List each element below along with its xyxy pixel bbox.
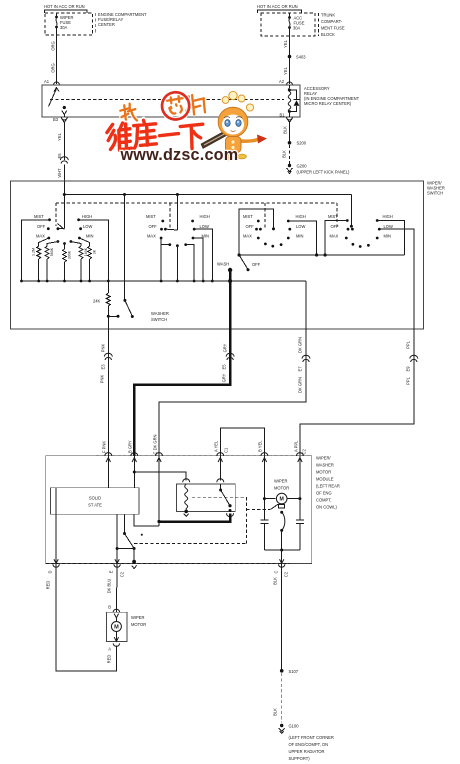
svg-text:30A: 30A [293, 26, 301, 31]
node HIGH 3 [287, 214, 317, 255]
node OFF 4 [331, 224, 354, 231]
washer switch arm [123, 195, 168, 323]
svg-text:OF ENG: OF ENG [316, 491, 332, 496]
svg-text:HIGH: HIGH [200, 214, 210, 219]
svg-text:C2: C2 [284, 571, 289, 577]
label TRUNK COMPARTMENT FUSE BLOCK [319, 13, 345, 38]
svg-text:MENT FUSE: MENT FUSE [321, 26, 345, 31]
label ACCESSORY RELAY [304, 86, 360, 106]
fuse WIPER FUSE 30A [55, 13, 73, 35]
wiper motor (in module) [274, 479, 289, 509]
wire YEL from acc fuse [283, 36, 290, 84]
wire bank2 center drop [176, 244, 179, 281]
svg-text:LOW: LOW [83, 224, 92, 229]
resistor 160K [70, 240, 88, 281]
svg-text:B1: B1 [280, 113, 286, 118]
node feed rail [63, 193, 352, 196]
wire ORG from wiper fuse to relay A1 [51, 35, 57, 84]
wire bank3 feed bracket [239, 209, 275, 255]
svg-text:YEL: YEL [283, 66, 288, 74]
wire D RED exit [48, 488, 60, 574]
wire B YEL to motor left brush [263, 456, 276, 520]
washer relay box (in module) [177, 484, 236, 512]
svg-text:ON COWL): ON COWL) [316, 505, 338, 510]
svg-text:24K: 24K [93, 299, 101, 304]
resistor 1.2M [32, 238, 49, 281]
svg-text:HIGH: HIGH [82, 214, 92, 219]
wire DK GRN switch to module pin C [159, 329, 310, 456]
svg-text:MIST: MIST [243, 214, 253, 219]
wire washer relay to motor feed (heavy) [159, 514, 230, 522]
svg-text:WASHER: WASHER [316, 463, 334, 468]
svg-text:F PNK: F PNK [102, 441, 107, 453]
svg-text:B YEL: B YEL [258, 440, 263, 452]
svg-text:3K: 3K [92, 249, 96, 254]
washer switch contacts [107, 315, 120, 318]
label ENGINE COMPARTMENT FUSE/RELAY CENTER [96, 12, 147, 33]
svg-text:HOT IN ACC OR RUN: HOT IN ACC OR RUN [44, 4, 85, 9]
node LOW 4 / wire PPL exit [378, 224, 414, 329]
svg-text:MIN: MIN [296, 234, 304, 239]
washer relay coil [183, 479, 190, 517]
wiper motor (lower) [107, 605, 147, 664]
wire PPL switch to module pin A [300, 329, 418, 456]
node common rail mid [238, 253, 405, 256]
svg-text:OFF: OFF [252, 262, 261, 267]
wire WHT entry into switch common [63, 181, 65, 229]
node HIGH 1 [77, 214, 108, 281]
svg-text:DK BLU: DK BLU [107, 579, 112, 594]
node MIN 1 [78, 234, 94, 240]
svg-text:OFF: OFF [149, 224, 158, 229]
svg-text:A1: A1 [44, 79, 50, 84]
watermark mascot [201, 91, 267, 160]
svg-text:MICRO RELAY CENTER): MICRO RELAY CENTER) [304, 101, 352, 106]
accessory relay box [42, 85, 300, 117]
ground G200 [287, 164, 350, 175]
node MIST 1 [22, 214, 51, 281]
svg-text:PPL: PPL [406, 376, 411, 384]
svg-text:C1: C1 [224, 447, 229, 453]
relay coil (A2 side) [288, 85, 291, 117]
pin B3 [53, 117, 67, 123]
rotary arc contacts 3 [264, 243, 283, 248]
svg-text:www.dzsc.com: www.dzsc.com [120, 146, 239, 164]
svg-text:LOW: LOW [296, 224, 305, 229]
wire A YEL into washer relay [219, 456, 221, 481]
svg-text:S403: S403 [296, 55, 306, 60]
wire bank4 feed from rail [350, 195, 353, 228]
svg-text:DK GRN: DK GRN [298, 337, 303, 353]
node MIN 4 [376, 234, 391, 240]
svg-text:(LEFT FRONT CORNER: (LEFT FRONT CORNER [289, 735, 334, 740]
wire BLK S107 to G100 (dashed) [273, 673, 282, 723]
wire PNK switch to module pin F [100, 329, 113, 456]
node common 2 [176, 195, 178, 231]
wire A PPL to motor right brush [288, 456, 302, 520]
relay clamp diode [288, 89, 299, 113]
ground G100 [279, 724, 334, 762]
svg-text:MAX: MAX [36, 234, 45, 239]
svg-text:C2: C2 [120, 571, 125, 577]
resistor 300K [63, 242, 72, 281]
module case ground [132, 560, 137, 569]
svg-text:WIPER: WIPER [131, 615, 144, 620]
resistor 560K [45, 240, 59, 281]
node LOW 1 [79, 224, 92, 230]
svg-text:PNK: PNK [100, 375, 105, 384]
node MAX 1 [36, 234, 50, 240]
watermark 找芯片 magnifier [119, 89, 206, 125]
svg-text:WASH: WASH [217, 262, 229, 267]
svg-text:A PPL: A PPL [294, 440, 299, 452]
svg-text:YEL: YEL [57, 132, 62, 140]
svg-text:WIPER: WIPER [274, 479, 287, 484]
washer arm (bank3) [217, 255, 261, 271]
svg-text:E7: E7 [298, 366, 303, 372]
svg-text:MOTOR: MOTOR [274, 486, 289, 491]
node WASH output (heavy) [228, 268, 232, 329]
svg-text:SUPPORT): SUPPORT) [289, 756, 311, 761]
wire BLK B1 to S200 [283, 122, 290, 141]
node LOW 2 [193, 224, 213, 281]
node MAX 2 [147, 234, 163, 282]
node LOW 3 [288, 224, 305, 231]
pin B1 [280, 113, 293, 123]
mechanical linkage dashed rail [56, 203, 337, 228]
svg-text:S107: S107 [289, 669, 299, 674]
svg-text:HOT IN ACC OR RUN: HOT IN ACC OR RUN [257, 4, 298, 9]
node OFF 3 [246, 224, 262, 231]
svg-text:HIGH: HIGH [296, 214, 306, 219]
solid state box [50, 488, 139, 515]
wire F PNK into solid state [107, 456, 109, 488]
svg-text:MIN: MIN [86, 234, 94, 239]
pin A1 [44, 79, 60, 85]
svg-text:G100: G100 [289, 724, 300, 729]
svg-text:TRUNK: TRUNK [321, 13, 335, 18]
node MIST 2 [146, 214, 164, 222]
wire bank2 left bracket [161, 243, 171, 246]
park cam pointer [246, 509, 270, 511]
svg-text:BLK: BLK [283, 126, 288, 134]
svg-text:MIST: MIST [328, 214, 338, 219]
resistor 3K [79, 238, 96, 281]
svg-text:DK GRN: DK GRN [298, 377, 303, 393]
svg-text:B GRY: B GRY [128, 440, 133, 453]
wire DK GRN exit from rail [305, 281, 307, 329]
wire B GRY into solid state, branch to washer relay coil [133, 456, 186, 488]
svg-text:RED: RED [107, 655, 112, 664]
svg-text:OFF: OFF [331, 224, 340, 229]
svg-text:HIGH: HIGH [383, 214, 393, 219]
svg-text:SWITCH: SWITCH [151, 317, 167, 322]
node HIGH 2 [191, 214, 210, 222]
node MAX 4 [330, 234, 348, 240]
node HOT IN ACC OR RUN (left) [44, 4, 87, 13]
wire BLK S200 to G200 (dashed) [282, 145, 290, 164]
node MIN 3 [287, 234, 304, 240]
connector C1/C2 dashed line along module top [96, 455, 312, 457]
node MIN 2 [192, 234, 209, 282]
wire YEL/WHT B3 to switch box [57, 123, 68, 182]
svg-text:E3: E3 [101, 364, 106, 370]
node MIST 4 [325, 214, 349, 255]
wiper/washer switch box [10, 181, 423, 329]
svg-text:RED: RED [46, 581, 51, 590]
svg-text:E: E [109, 570, 114, 573]
svg-text:PPL: PPL [406, 340, 411, 348]
pin A2 [279, 79, 293, 85]
svg-text:COMPART-: COMPART- [321, 19, 343, 24]
svg-text:A: A [108, 647, 111, 652]
svg-text:E9: E9 [406, 366, 411, 372]
capacitor left [260, 520, 268, 550]
wire RED module D to wiper motor A [46, 564, 117, 671]
splice S200 [288, 141, 307, 146]
svg-text:OF ENG/COMPT, ON: OF ENG/COMPT, ON [289, 742, 329, 747]
label wiper/washer motor module [316, 456, 340, 510]
svg-text:PNK: PNK [101, 344, 106, 353]
svg-text:GRY: GRY [223, 343, 228, 352]
svg-text:1.2M: 1.2M [32, 248, 36, 256]
svg-text:MOTOR: MOTOR [316, 470, 331, 475]
wire GRY (washer, heavy) switch to module pin B [134, 329, 234, 456]
node HIGH 4 [376, 214, 405, 255]
svg-text:(UPPER LEFT KICK PANEL): (UPPER LEFT KICK PANEL) [297, 170, 350, 175]
wire PNK exits switch box [107, 316, 109, 329]
connector dashed line along module bottom [46, 563, 290, 565]
svg-text:MOTOR: MOTOR [131, 622, 146, 627]
svg-text:LOW: LOW [384, 224, 393, 229]
svg-text:WASHER: WASHER [151, 311, 169, 316]
svg-text:YEL: YEL [283, 39, 288, 47]
svg-text:MIST: MIST [146, 214, 156, 219]
rotary arc contacts 4 [352, 243, 370, 248]
splice S403 [288, 55, 307, 60]
svg-text:UPPER RADIATOR: UPPER RADIATOR [289, 749, 325, 754]
svg-text:SWITCH: SWITCH [427, 191, 443, 196]
watermark 维库一下 [107, 118, 204, 151]
trunk compartment fuse block box (dashed) [261, 13, 315, 36]
svg-text:CENTER: CENTER [98, 22, 115, 27]
svg-text:GRY: GRY [222, 373, 227, 382]
svg-text:BLK: BLK [282, 150, 287, 158]
node resistor bottom rail [20, 280, 306, 283]
park linkage dashed [134, 497, 246, 543]
svg-text:BLOCK: BLOCK [321, 32, 335, 37]
svg-text:WIPER/: WIPER/ [316, 456, 331, 461]
wire DK BLU module E to motor B [107, 564, 118, 613]
wire C DK GRN down to relay junction [157, 456, 160, 526]
fuse ACC FUSE 30A [288, 13, 305, 36]
svg-text:A2: A2 [279, 79, 285, 84]
svg-text:BLK: BLK [273, 708, 278, 716]
svg-text:M: M [114, 625, 119, 631]
svg-text:MAX: MAX [147, 234, 156, 239]
park switch at motor [280, 511, 285, 550]
node OFF 2 [149, 224, 178, 231]
svg-text:MODULE: MODULE [316, 477, 334, 482]
relay internal dashed link [50, 99, 284, 101]
svg-text:560K: 560K [50, 247, 54, 256]
svg-text:LOW: LOW [200, 224, 209, 229]
svg-text:COMPT,: COMPT, [316, 498, 331, 503]
svg-text:300K: 300K [67, 250, 71, 259]
park switch (module left) [116, 514, 143, 563]
splice S107 [280, 669, 299, 674]
svg-text:C: C [274, 570, 279, 573]
wiper/washer motor module box [46, 456, 312, 564]
svg-text:SOLID: SOLID [89, 496, 101, 501]
svg-text:MAX: MAX [330, 234, 339, 239]
node HOT IN ACC OR RUN (right) [257, 4, 302, 13]
wire bank2 right bracket [184, 243, 194, 281]
wire BLK module C to S107 [273, 564, 282, 670]
svg-text:ORG: ORG [51, 63, 56, 72]
wire C exit [274, 559, 289, 577]
svg-text:MAX: MAX [243, 234, 252, 239]
svg-text:30A: 30A [60, 25, 68, 30]
svg-text:M: M [280, 497, 284, 503]
svg-text:A YEL: A YEL [214, 440, 219, 452]
capacitor right [296, 520, 304, 550]
relay switch contact (A1 side) [49, 88, 67, 118]
engine compartment fuse/relay center box (dashed) [45, 13, 93, 35]
resistor 24K (washer delay) [93, 281, 110, 316]
svg-text:S200: S200 [297, 141, 307, 146]
svg-text:OFF: OFF [246, 224, 255, 229]
wire YEL jumper pin A to pin B [220, 428, 264, 456]
node motor ground rail [264, 549, 300, 564]
svg-text:BLK: BLK [273, 577, 278, 585]
svg-text:WHT: WHT [57, 168, 62, 178]
node OFF 1 [37, 224, 64, 231]
svg-text:(LEFT REAR: (LEFT REAR [316, 484, 340, 489]
svg-text:MIN: MIN [384, 234, 392, 239]
node MAX 3 [243, 234, 260, 240]
svg-text:E5: E5 [222, 364, 227, 370]
svg-text:C DK GRN: C DK GRN [153, 434, 158, 454]
module pin entry arrows [105, 453, 112, 456]
svg-text:B: B [108, 605, 111, 610]
washer relay switch [217, 479, 234, 517]
svg-text:G200: G200 [297, 164, 308, 169]
node MIST 3 [243, 214, 260, 222]
svg-text:OFF: OFF [37, 224, 46, 229]
svg-text:D: D [48, 570, 53, 573]
wire E exit [109, 559, 125, 577]
svg-text:ST ATE: ST ATE [88, 503, 102, 508]
svg-text:ORG: ORG [51, 41, 56, 50]
svg-text:MIST: MIST [34, 214, 44, 219]
svg-text:B3: B3 [53, 117, 59, 122]
module pin labels top [102, 434, 307, 454]
wire solid state aux output [134, 514, 159, 526]
